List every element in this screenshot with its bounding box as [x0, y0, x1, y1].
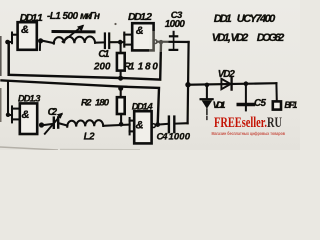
svg-text:C4: C4 — [157, 132, 169, 143]
svg-text:L2: L2 — [84, 132, 96, 143]
svg-text:200: 200 — [93, 62, 111, 73]
svg-text:180: 180 — [138, 62, 159, 73]
svg-text:VD2: VD2 — [218, 69, 236, 80]
svg-text:DD1.1: DD1.1 — [20, 12, 43, 24]
svg-text:C2: C2 — [48, 107, 58, 118]
svg-text:1000: 1000 — [165, 19, 186, 30]
svg-text:VD1, VD2: VD1, VD2 — [212, 32, 249, 44]
svg-text:C5: C5 — [254, 98, 267, 109]
svg-text:R2: R2 — [81, 98, 92, 109]
svg-text:C1: C1 — [98, 49, 109, 60]
svg-text:180: 180 — [95, 98, 110, 109]
svg-text:DOG62: DOG62 — [257, 32, 285, 44]
svg-text:-L1 500: -L1 500 — [47, 11, 78, 22]
svg-text:VD1: VD1 — [213, 100, 226, 111]
svg-text:Магазин бесплатных цифровых то: Магазин бесплатных цифровых товаров — [212, 131, 286, 136]
svg-text:DD1.4: DD1.4 — [132, 101, 153, 111]
svg-text:&: & — [21, 24, 29, 36]
svg-text:R1: R1 — [124, 62, 135, 73]
svg-text:1000: 1000 — [169, 132, 191, 143]
svg-text:DD1.3: DD1.3 — [18, 94, 41, 104]
svg-text:&: & — [22, 109, 30, 121]
svg-text:&: & — [136, 25, 144, 37]
svg-text:DD1.2: DD1.2 — [128, 11, 152, 23]
svg-text:FREEseller.RU: FREEseller.RU — [214, 115, 282, 131]
svg-text:&: & — [136, 119, 144, 131]
svg-text:BF1: BF1 — [284, 100, 297, 110]
svg-text:мкГн: мкГн — [80, 11, 100, 22]
svg-text:UCY7400: UCY7400 — [237, 13, 276, 25]
svg-text:DD1: DD1 — [214, 13, 232, 25]
